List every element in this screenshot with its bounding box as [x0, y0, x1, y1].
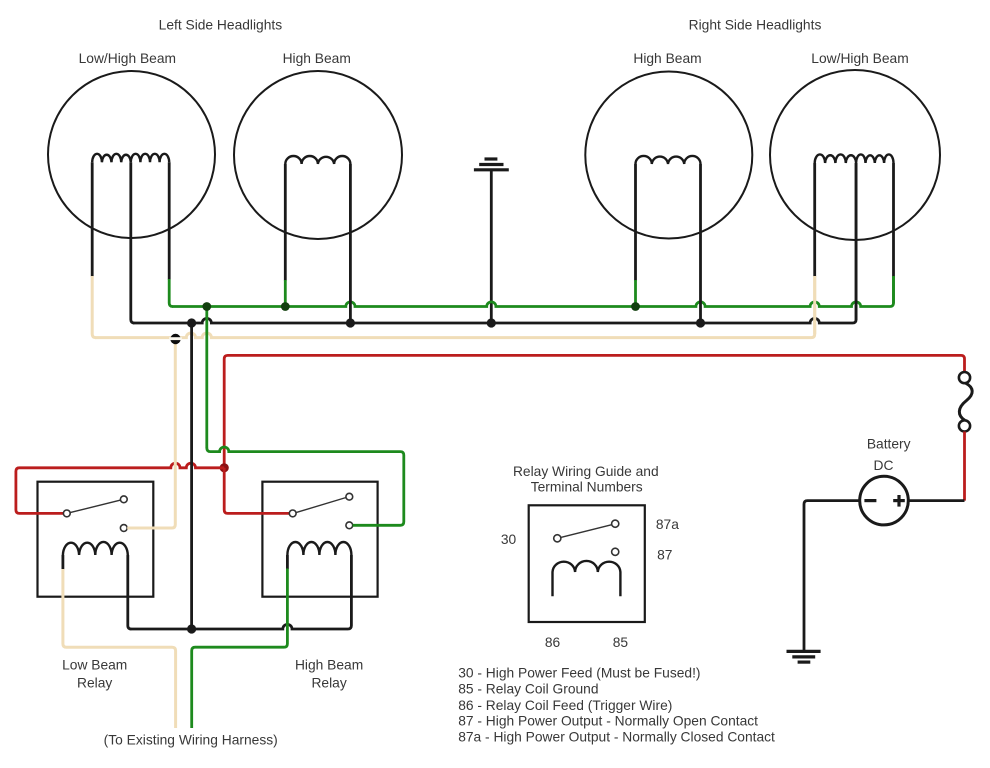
headlight lamp L1 Low/High Beam (left) bulb envelope: [48, 71, 215, 238]
wire: red lead from fuse bottom to battery positive corner: [963, 432, 966, 501]
guide terminal 30 contact circle: [554, 535, 561, 542]
junction: black bus / L3 right leg: [696, 318, 705, 327]
relay K2 terminal 87 contact circle: [346, 522, 353, 529]
wire: L4 right leg green lower part to green bus right end: [892, 276, 895, 304]
svg-text:High Beam: High Beam: [283, 51, 351, 66]
guide armature 30 to 87a: [561, 525, 612, 538]
svg-text:DC: DC: [874, 458, 894, 473]
wire: red +12V feed bus from relay branch corner to fuse: [224, 355, 964, 468]
svg-text:30: 30: [501, 532, 517, 547]
headlight lamp L2 High Beam (left) bulb envelope: [234, 71, 402, 239]
wire: L3 left leg black upper part: [634, 164, 637, 281]
fuse F1 element squiggle: [959, 383, 972, 420]
wire: relay ground link between coil returns (hops over green at 287): [131, 555, 352, 629]
junction: green bus / L2 left leg: [281, 302, 290, 311]
battery positive sign: [893, 495, 905, 507]
relay K2 High Beam Relay box: [262, 482, 377, 597]
svg-text:87a - High Power Output - Norm: 87a - High Power Output - Normally Close…: [458, 730, 775, 745]
svg-text:86 - Relay Coil Feed (Trigger: 86 - Relay Coil Feed (Trigger Wire): [458, 698, 672, 713]
wire: L4 left leg tan lower part down to tan bus (crosses green+black buses): [813, 276, 816, 334]
junction: green bus / L3 left leg: [631, 302, 640, 311]
wire: battery negative lead to ground: [804, 501, 860, 651]
guide terminal 87 contact circle: [612, 548, 619, 555]
wire: green vertical from green bus down to relay area: [205, 307, 208, 449]
junction: green bus / green relay drop: [202, 302, 211, 311]
svg-text:85: 85: [613, 635, 629, 650]
wire: L4 right leg black upper part: [892, 163, 895, 277]
wire: K1 coil left leg black stub: [62, 555, 65, 570]
wire: red feed branch to Low Beam relay terminal 30 (hops over tan and black verticals): [16, 463, 224, 513]
svg-text:Right Side Headlights: Right Side Headlights: [689, 17, 822, 32]
wire: L2 right leg down to black bus: [349, 164, 352, 323]
svg-text:(To Existing Wiring Harness): (To Existing Wiring Harness): [104, 733, 278, 748]
svg-text:30 - High Power Feed (Must be: 30 - High Power Feed (Must be Fused!): [458, 665, 700, 680]
filament coils of lamp L4 (dual filament): [815, 154, 894, 163]
svg-text:Left Side Headlights: Left Side Headlights: [159, 17, 283, 32]
svg-text:Low Beam: Low Beam: [62, 657, 127, 672]
svg-text:87a: 87a: [656, 517, 679, 532]
svg-text:Relay Wiring Guide and: Relay Wiring Guide and: [513, 464, 659, 479]
battery negative sign: [864, 499, 876, 502]
junction: red feed node to relays (dot): [220, 463, 229, 472]
svg-text:87 - High Power Output - Norma: 87 - High Power Output - Normally Open C…: [458, 714, 758, 729]
relay K1 terminal 87 contact circle: [120, 525, 127, 532]
svg-text:Low/High Beam: Low/High Beam: [79, 51, 176, 66]
wire: L1 right leg black upper part: [168, 162, 171, 279]
battery B1 circle symbol: [860, 476, 909, 525]
junction: relay ground link / main black vertical: [187, 624, 196, 633]
wire: L1 right leg green lower part turning into green high-beam bus: [169, 279, 173, 307]
filament coil of lamp L2: [285, 156, 350, 164]
relay K2 armature from 30 to 87a: [296, 498, 346, 513]
wire: red feed drop to High Beam relay terminal 30: [224, 468, 289, 514]
wire: battery positive to fuse (black horizontal): [908, 499, 964, 502]
wire: L3 right leg down to black bus: [699, 164, 702, 323]
fuse F1 top terminal circle: [959, 372, 970, 383]
wire: L4 left leg black upper part: [813, 163, 816, 277]
relay wiring guide box U1: [529, 505, 645, 622]
headlight lamp L4 Low/High Beam (right) bulb envelope: [770, 70, 940, 240]
junction: black bus / top ground lead: [487, 318, 496, 327]
svg-text:High Beam: High Beam: [633, 51, 701, 66]
guide terminal 87a contact circle: [612, 520, 619, 527]
svg-text:86: 86: [545, 635, 561, 650]
wire: K2 coil left leg green trigger down and left to harness drop: [192, 569, 288, 729]
wire: L2 left leg black upper part: [284, 164, 287, 281]
wire: L4 middle leg down to black bus right end: [855, 163, 858, 320]
relay K1 armature from 30 to 87a: [70, 500, 121, 512]
relay K2 terminal 30 contact circle: [289, 510, 296, 517]
svg-text:Battery: Battery: [867, 437, 911, 452]
svg-text:Low/High Beam: Low/High Beam: [811, 51, 908, 66]
relay K2 coil: [287, 542, 351, 555]
junction: black bus / main black vertical: [187, 318, 196, 327]
earth ground symbol (battery negative): [787, 651, 821, 662]
relay K1 coil: [63, 542, 128, 555]
wire: K1 coil right leg down to relay ground link: [128, 555, 132, 629]
svg-text:Relay: Relay: [77, 676, 112, 691]
wire: L1 middle leg becoming black ground bus start: [131, 162, 135, 323]
svg-text:High Beam: High Beam: [295, 657, 363, 672]
guide relay coil: [553, 561, 621, 596]
connector bullet on tan bus at branch point: [169, 334, 182, 344]
junction: black bus / L2 right leg: [346, 318, 355, 327]
filament coils of lamp L1 (dual filament): [92, 154, 169, 163]
relay K1 Low Beam Relay box: [38, 482, 154, 597]
wire: L1 left leg (low filament, black upper part): [91, 162, 94, 276]
fuse F1 bottom terminal circle: [959, 420, 970, 431]
svg-text:85 - Relay Coil Ground: 85 - Relay Coil Ground: [458, 682, 598, 697]
headlight lamp L3 High Beam (right) bulb envelope: [585, 72, 752, 239]
filament coil of lamp L3: [636, 156, 701, 164]
wire: black ground bus (hops over green vertical at 207 and tan vertical at 815): [133, 163, 856, 323]
relay K1 terminal 87a contact circle: [120, 496, 127, 503]
wire: L3 left leg green lower part to green bus: [634, 280, 637, 307]
wire: green trigger run to K2 terminal 87 (hops over red vertical): [207, 447, 404, 525]
relay K2 terminal 87a contact circle: [346, 493, 353, 500]
wire: tan low-beam feed bus (hops over verticals at x=191 and x=207): [95, 276, 815, 338]
svg-text:Terminal Numbers: Terminal Numbers: [531, 480, 643, 495]
relay K1 terminal 30 contact circle: [63, 510, 70, 517]
chassis ground symbol (top centre, inverted): [474, 159, 509, 170]
wire: main black vertical from black bus down to relay coil return: [190, 323, 193, 629]
wire: tan from K1 terminal 87 up to tan bus: [127, 340, 175, 528]
wire: K1 coil left leg tan continuation down and right to harness drop: [63, 569, 176, 728]
wire: ground lead down from top ground symbol to black bus: [490, 170, 493, 323]
wire: K2 coil left leg black stub: [286, 555, 289, 569]
svg-text:Relay: Relay: [311, 676, 346, 691]
wire: green high-beam feed bus (hops at 350, 491, 700, 815, 856): [172, 276, 894, 307]
wire: L1 left leg tan lower part turning into tan low-beam bus: [92, 276, 96, 338]
wire: L2 left leg green lower part to green bus: [284, 280, 287, 307]
svg-text:87: 87: [657, 548, 672, 563]
